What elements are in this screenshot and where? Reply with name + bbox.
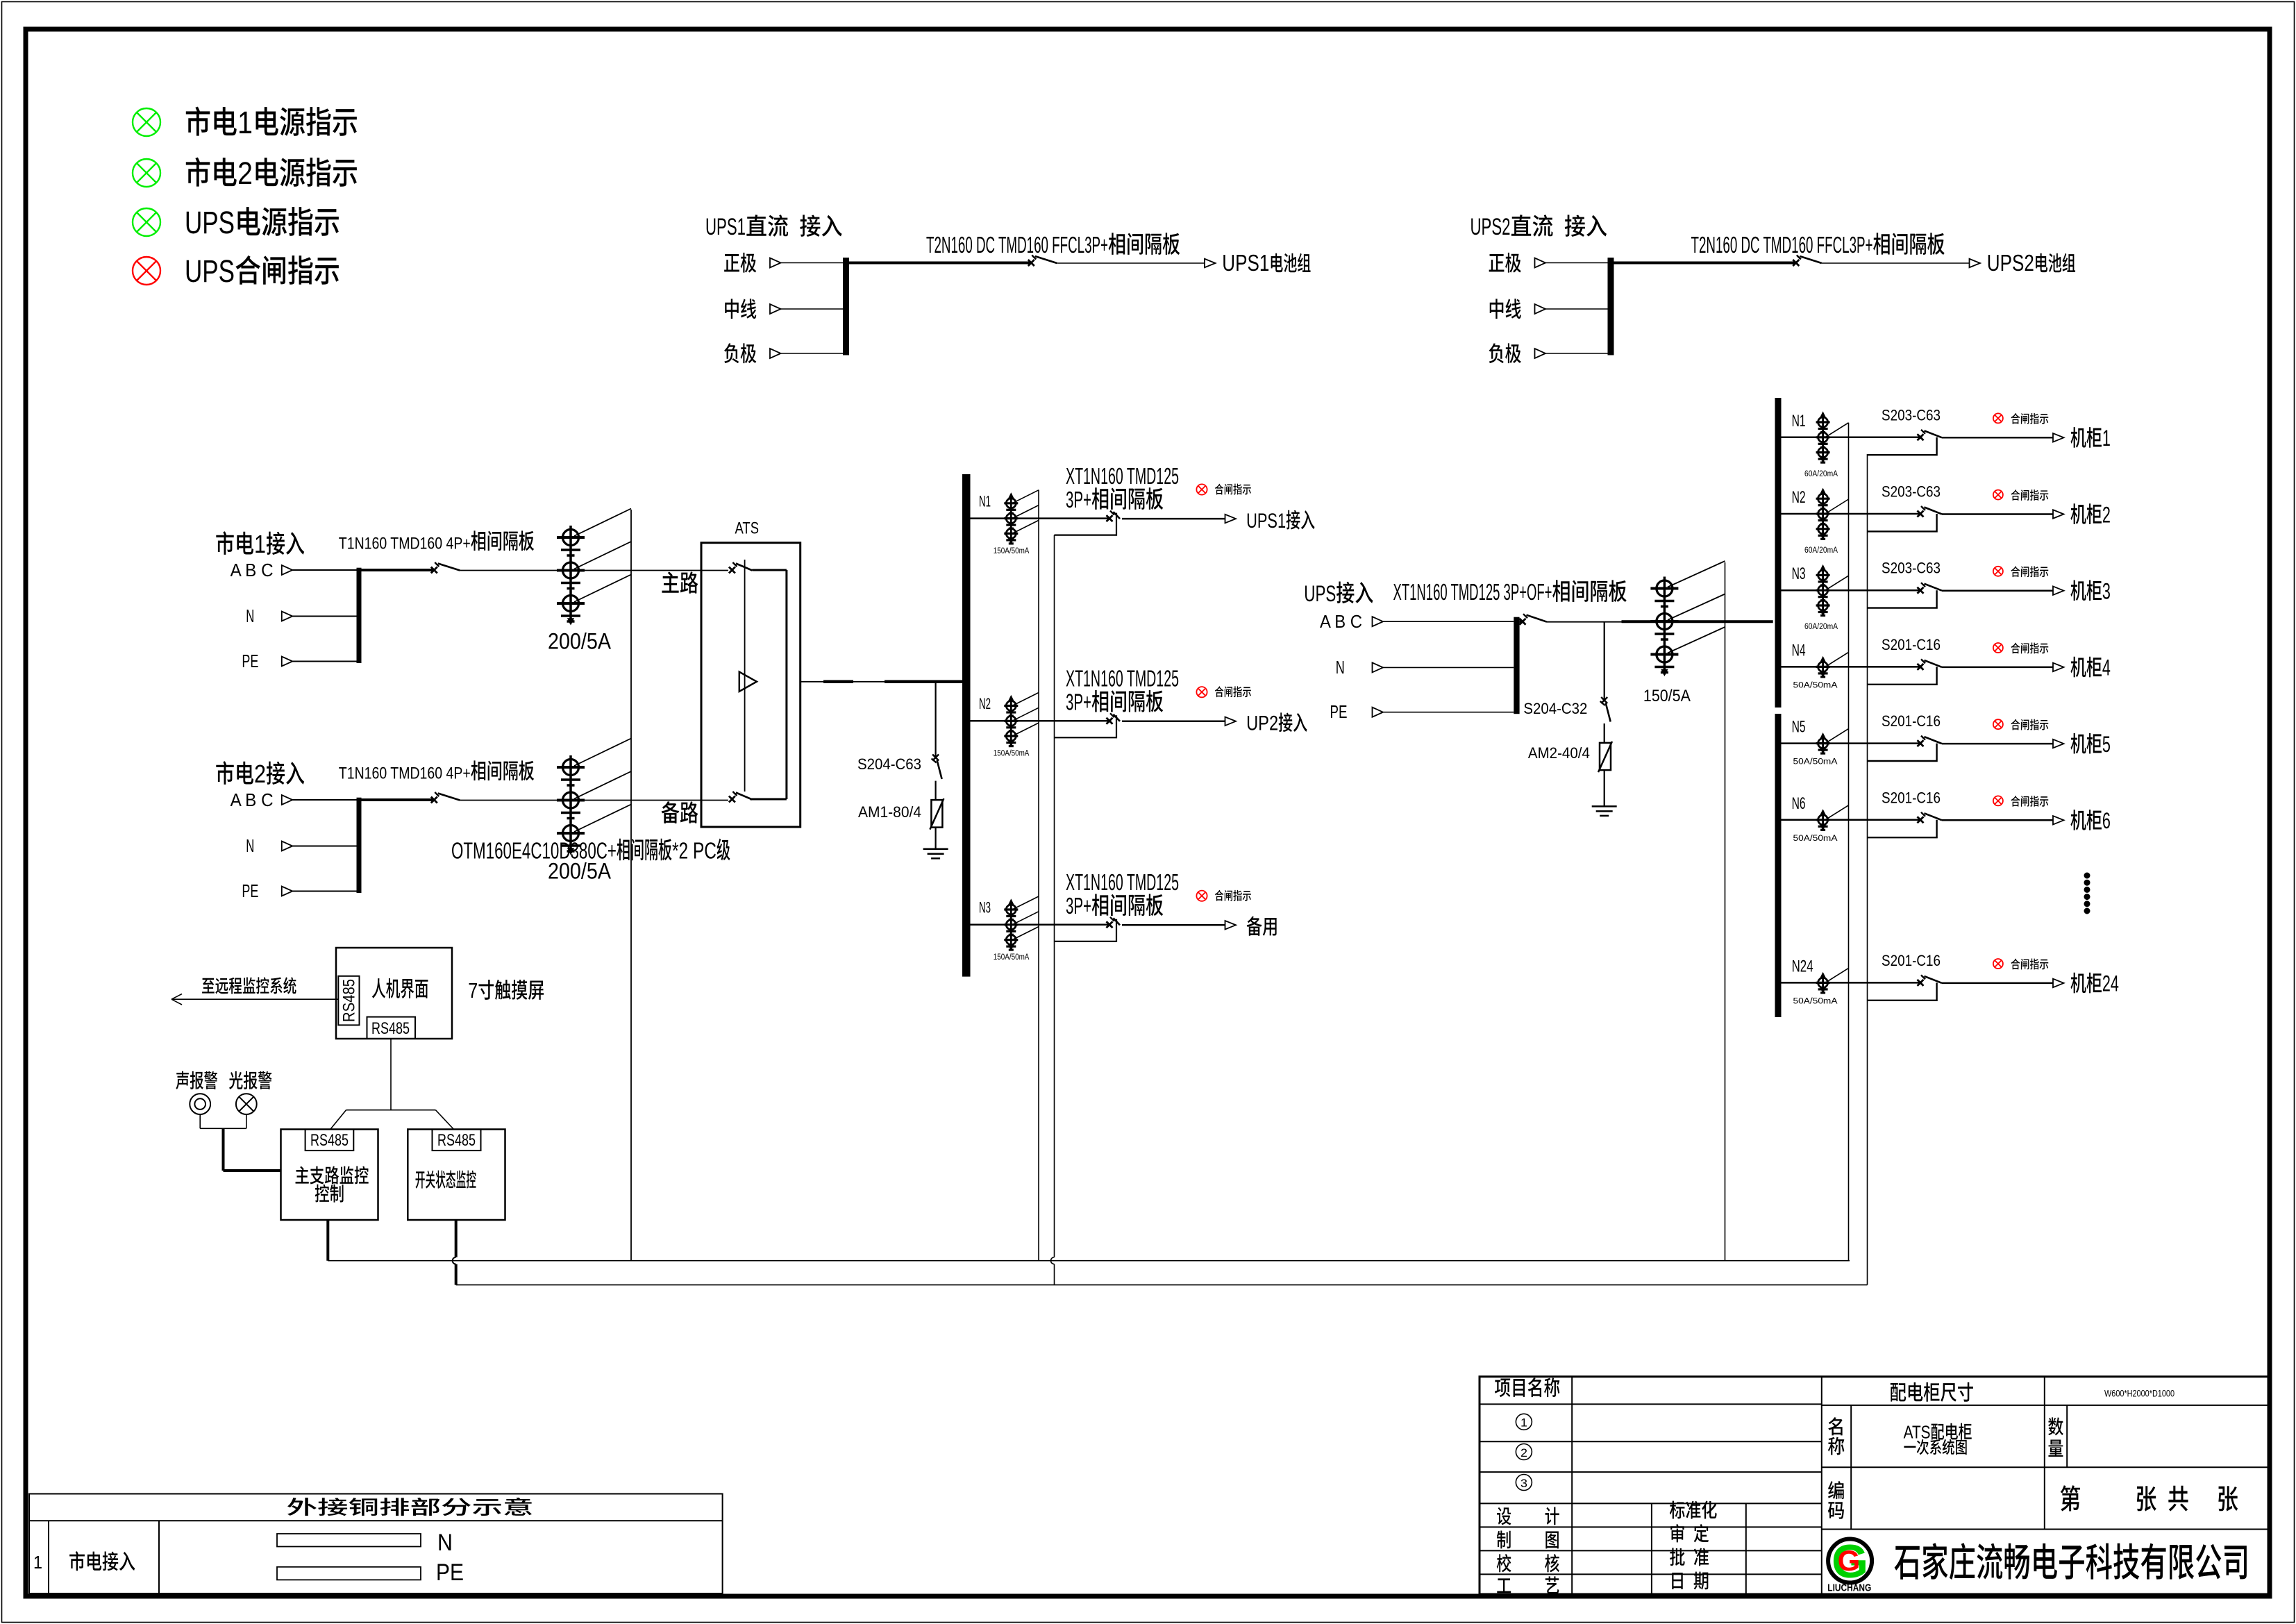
svg-text:N: N xyxy=(246,605,254,626)
svg-text:150/5A: 150/5A xyxy=(1643,687,1691,705)
svg-text:S201-C16: S201-C16 xyxy=(1882,712,1941,730)
svg-text:3: 3 xyxy=(1520,1477,1527,1490)
svg-text:150A/50mA: 150A/50mA xyxy=(994,953,1030,962)
svg-text:1: 1 xyxy=(33,1552,42,1573)
svg-text:PE: PE xyxy=(1330,701,1348,722)
svg-text:50A/50mA: 50A/50mA xyxy=(1793,835,1838,843)
svg-text:60A/20mA: 60A/20mA xyxy=(1804,623,1838,631)
svg-text:ATS: ATS xyxy=(1904,1422,1931,1443)
svg-text:60A/20mA: 60A/20mA xyxy=(1804,470,1838,478)
svg-text:T1N160 TMD160 4P+: T1N160 TMD160 4P+ xyxy=(339,764,471,783)
svg-text:60A/20mA: 60A/20mA xyxy=(1804,546,1838,555)
svg-text:A B C: A B C xyxy=(1320,611,1362,632)
svg-text:150A/50mA: 150A/50mA xyxy=(994,750,1030,758)
svg-text:N1: N1 xyxy=(979,492,991,510)
svg-text:*2 PC: *2 PC xyxy=(672,837,717,863)
svg-text:50A/50mA: 50A/50mA xyxy=(1793,758,1838,767)
svg-text:XT1N160 TMD125: XT1N160 TMD125 xyxy=(1066,463,1179,489)
svg-text:ATS: ATS xyxy=(735,519,760,537)
svg-text:2: 2 xyxy=(2102,502,2111,527)
svg-text:XT1N160 TMD125 3P+OF+: XT1N160 TMD125 3P+OF+ xyxy=(1393,579,1552,605)
svg-text:UPS2: UPS2 xyxy=(1987,250,2034,276)
svg-text:S203-C63: S203-C63 xyxy=(1882,406,1941,424)
svg-text:4: 4 xyxy=(2102,655,2111,680)
svg-text:S201-C16: S201-C16 xyxy=(1882,636,1941,653)
svg-text:24: 24 xyxy=(2102,971,2119,996)
svg-text:W600*H2000*D1000: W600*H2000*D1000 xyxy=(2104,1388,2175,1399)
svg-text:RS485: RS485 xyxy=(437,1131,476,1150)
svg-text:N6: N6 xyxy=(1792,794,1806,813)
svg-text:RS485: RS485 xyxy=(371,1019,410,1038)
svg-text:N: N xyxy=(246,835,254,856)
svg-text:OTM160E4C10D380C+: OTM160E4C10D380C+ xyxy=(451,837,617,863)
svg-text:1: 1 xyxy=(237,105,253,140)
svg-text:XT1N160 TMD125: XT1N160 TMD125 xyxy=(1066,666,1179,692)
svg-text:2: 2 xyxy=(1520,1446,1527,1459)
svg-text:RS485: RS485 xyxy=(340,979,359,1022)
svg-text:N1: N1 xyxy=(1792,412,1806,430)
svg-text:N2: N2 xyxy=(979,695,991,712)
svg-text:A B C: A B C xyxy=(231,560,274,580)
svg-text:7: 7 xyxy=(468,978,478,1003)
svg-text:1: 1 xyxy=(1520,1416,1527,1430)
svg-text:T2N160 DC TMD160 FFCL3P+: T2N160 DC TMD160 FFCL3P+ xyxy=(1691,232,1873,258)
svg-text:N: N xyxy=(437,1530,453,1556)
svg-text:50A/50mA: 50A/50mA xyxy=(1793,997,1838,1005)
svg-text:N4: N4 xyxy=(1792,641,1806,660)
svg-text:6: 6 xyxy=(2102,808,2111,833)
svg-text:N: N xyxy=(1336,657,1345,678)
svg-text:PE: PE xyxy=(242,651,258,671)
svg-text:S203-C63: S203-C63 xyxy=(1882,560,1941,577)
svg-text:AM2-40/4: AM2-40/4 xyxy=(1528,744,1590,762)
svg-text:T1N160 TMD160 4P+: T1N160 TMD160 4P+ xyxy=(339,535,471,553)
svg-text:50A/50mA: 50A/50mA xyxy=(1793,681,1838,689)
svg-text:PE: PE xyxy=(436,1559,464,1586)
svg-text:S204-C63: S204-C63 xyxy=(857,755,921,773)
svg-text:UPS: UPS xyxy=(185,253,235,289)
svg-text:AM1-80/4: AM1-80/4 xyxy=(858,803,921,821)
svg-text:5: 5 xyxy=(2102,732,2111,757)
svg-text:3P+: 3P+ xyxy=(1066,689,1091,715)
svg-text:UPS1: UPS1 xyxy=(1246,510,1286,533)
svg-text:UPS2: UPS2 xyxy=(1470,214,1511,240)
svg-text:N3: N3 xyxy=(1792,564,1806,583)
svg-text:N5: N5 xyxy=(1792,718,1806,737)
svg-text:200/5A: 200/5A xyxy=(548,629,612,654)
svg-text:UP2: UP2 xyxy=(1246,712,1278,735)
svg-text:2: 2 xyxy=(237,156,253,191)
svg-text:UPS: UPS xyxy=(1304,581,1336,606)
svg-text:XT1N160 TMD125: XT1N160 TMD125 xyxy=(1066,869,1179,895)
svg-text:RS485: RS485 xyxy=(310,1131,349,1150)
svg-text:S203-C63: S203-C63 xyxy=(1882,483,1941,501)
svg-text:N24: N24 xyxy=(1792,957,1813,976)
svg-text:T2N160 DC TMD160 FFCL3P+: T2N160 DC TMD160 FFCL3P+ xyxy=(926,232,1108,258)
svg-text:S201-C16: S201-C16 xyxy=(1882,952,1941,969)
svg-text:UPS1: UPS1 xyxy=(1222,250,1269,276)
svg-text:150A/50mA: 150A/50mA xyxy=(994,547,1030,555)
svg-text:S201-C16: S201-C16 xyxy=(1882,789,1941,806)
svg-text:3P+: 3P+ xyxy=(1066,893,1091,919)
svg-text:1: 1 xyxy=(254,530,266,558)
svg-text:1: 1 xyxy=(2102,426,2111,451)
svg-text:3P+: 3P+ xyxy=(1066,487,1091,512)
svg-text:A B C: A B C xyxy=(231,789,274,810)
svg-text:PE: PE xyxy=(242,880,258,901)
svg-text:2: 2 xyxy=(254,760,266,788)
svg-text:3: 3 xyxy=(2102,579,2111,604)
svg-text:LIUCHANG: LIUCHANG xyxy=(1827,1582,1871,1594)
svg-text:G: G xyxy=(1838,1544,1861,1577)
svg-text:S204-C32: S204-C32 xyxy=(1523,700,1587,717)
svg-text:UPS: UPS xyxy=(185,205,235,240)
svg-text:N3: N3 xyxy=(979,899,991,916)
svg-text:N2: N2 xyxy=(1792,488,1806,507)
svg-text:UPS1: UPS1 xyxy=(705,214,746,240)
